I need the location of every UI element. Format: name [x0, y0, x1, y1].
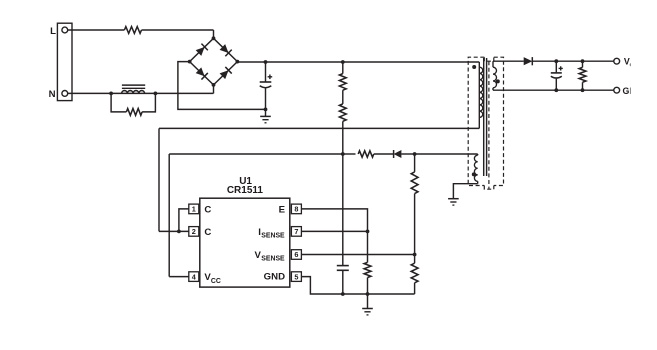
- svg-text:8: 8: [294, 205, 298, 214]
- svg-text:SENSE: SENSE: [261, 256, 285, 263]
- svg-text:2: 2: [192, 227, 196, 236]
- svg-text:6: 6: [294, 250, 298, 259]
- svg-text:E: E: [279, 204, 286, 215]
- svg-text:GND: GND: [264, 272, 285, 283]
- svg-text:CR1511: CR1511: [227, 185, 264, 196]
- svg-text:7: 7: [294, 227, 298, 236]
- svg-text:N: N: [49, 89, 56, 100]
- svg-text:L: L: [50, 26, 56, 37]
- svg-text:C: C: [204, 204, 211, 215]
- svg-text:SENSE: SENSE: [261, 232, 285, 239]
- svg-text:C: C: [204, 227, 211, 238]
- svg-text:5: 5: [294, 272, 298, 281]
- svg-text:CC: CC: [211, 278, 221, 285]
- svg-text:1: 1: [192, 205, 196, 214]
